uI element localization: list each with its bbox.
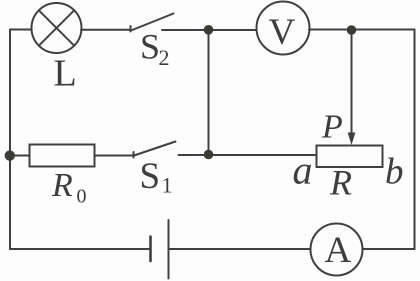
- svg-text:0: 0: [77, 185, 87, 207]
- svg-text:R: R: [51, 167, 73, 204]
- svg-text:L: L: [54, 53, 77, 95]
- svg-text:R: R: [329, 163, 352, 203]
- svg-text:2: 2: [159, 45, 170, 70]
- svg-text:V: V: [269, 12, 296, 53]
- svg-text:S: S: [140, 27, 160, 67]
- svg-text:S: S: [140, 156, 161, 197]
- svg-text:b: b: [385, 152, 404, 193]
- svg-text:P: P: [321, 109, 343, 146]
- svg-text:a: a: [293, 148, 313, 193]
- svg-text:A: A: [325, 230, 352, 271]
- svg-text:1: 1: [162, 173, 173, 198]
